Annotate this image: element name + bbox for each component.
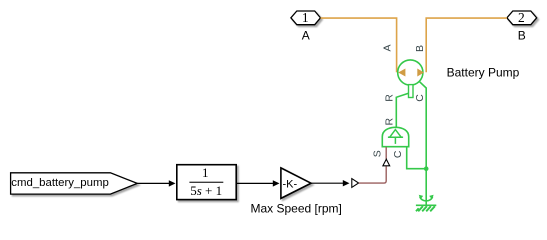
svg-text:C: C	[392, 150, 404, 158]
svg-text:Battery Pump: Battery Pump	[447, 65, 520, 79]
svg-text:1: 1	[202, 165, 209, 180]
brown PS wire from converter to S port	[359, 166, 386, 183]
mechanical rotational reference (ground)	[416, 195, 436, 212]
svg-text:B: B	[414, 45, 426, 52]
svg-text:C: C	[414, 94, 426, 102]
svg-text:B: B	[518, 29, 526, 43]
pump circle (Battery Pump)	[398, 60, 423, 85]
wire A (orange liquid line from port 1 to pump A)	[321, 18, 397, 72]
wire transfer fcn to gain	[236, 182, 274, 184]
fraction bar	[189, 181, 223, 183]
ideal angular velocity source (dome)	[382, 127, 408, 146]
ground bar	[416, 204, 436, 206]
transfer fcn block	[177, 165, 236, 200]
svg-text:A: A	[381, 44, 393, 51]
ground hatches	[418, 206, 423, 211]
pump left vane triangle	[398, 69, 405, 77]
brown PS wire segment above arrow	[385, 147, 387, 159]
svg-text:Max Speed [rpm]: Max Speed [rpm]	[251, 201, 342, 215]
svg-text:cmd_battery_pump: cmd_battery_pump	[11, 177, 109, 189]
svg-text:A: A	[302, 29, 310, 43]
wire B (orange liquid line from port 2 to pump B)	[426, 18, 507, 72]
inport 2 hexagon	[507, 11, 537, 25]
wire pump C down (green)	[419, 82, 426, 169]
gain triangle Max Speed	[281, 168, 311, 199]
hollow up triangle at S port	[383, 159, 390, 166]
ground wings	[420, 197, 433, 201]
wire cmd to transfer fcn	[137, 182, 170, 184]
wire junction to ground (green)	[425, 169, 427, 205]
arrowhead into transfer fcn	[169, 180, 176, 186]
inport 1 hexagon	[291, 11, 321, 25]
svg-text:2: 2	[518, 10, 525, 25]
arrowhead black	[343, 180, 350, 186]
arrowhead into gain	[273, 180, 280, 186]
wire source C to junction (green)	[407, 147, 425, 169]
pump right vane triangle	[417, 69, 424, 77]
svg-text:-K-: -K-	[282, 178, 297, 190]
svg-text:S: S	[372, 150, 384, 157]
svg-text:R: R	[383, 117, 395, 125]
svg-text:1: 1	[302, 10, 309, 25]
source arrow icon	[388, 130, 403, 144]
inport tag cmd_battery_pump	[11, 173, 138, 194]
wire pump R to source R (green)	[396, 93, 408, 128]
svg-text:R: R	[384, 94, 396, 102]
hollow right triangle port	[352, 179, 359, 188]
svg-text:5s + 1: 5s + 1	[190, 183, 222, 198]
pump shaft	[409, 85, 414, 98]
wire gain to converter	[311, 182, 345, 184]
junction dot	[424, 166, 429, 171]
